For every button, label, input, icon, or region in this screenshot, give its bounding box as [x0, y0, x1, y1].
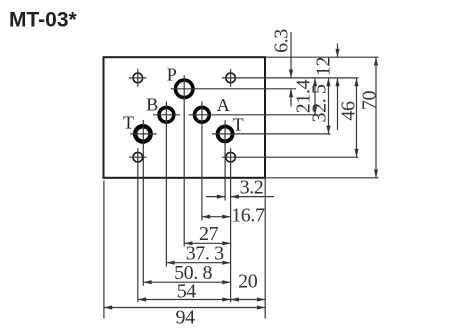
svg-text:12: 12	[313, 57, 335, 76]
wire: bottom-right bolt crosshair horizontal, continues right as bolt-row extension	[222, 156, 359, 158]
wire: top-right bolt crosshair horizontal, continues right as bolt-row extension	[222, 77, 359, 79]
wire: A crosshair horizontal, continues right as A/B-row extension	[189, 114, 319, 116]
svg-text:MT-03*: MT-03*	[9, 9, 78, 32]
svg-text:3.2: 3.2	[240, 177, 264, 199]
wire: plate left edge extension line (down)	[103, 181, 105, 319]
wire: T-left crosshair vertical, continues down to 50.8-dimension	[142, 120, 144, 286]
wire: top-right bolt crosshair vertical	[230, 69, 232, 87]
dimension 3.2 (T-right col to bolt col)	[206, 196, 225, 198]
dimension 21.4 (bolt row to A/B row)	[314, 78, 316, 115]
svg-text:16.7: 16.7	[231, 205, 265, 227]
wire: bottom-left bolt crosshair vertical, continues down to 54-dimension	[137, 148, 139, 302]
dimension 20 (bolt col to plate right edge)	[231, 299, 266, 301]
port T left hole	[135, 126, 150, 141]
svg-text:B: B	[146, 95, 158, 115]
dimension 27 (P col to bolt col)	[184, 242, 230, 244]
port P hole	[175, 80, 193, 98]
dimension 12 (plate top to bolt row)	[337, 44, 339, 58]
port A hole	[195, 107, 210, 122]
wire: top-left bolt crosshair	[129, 77, 147, 79]
wire: A crosshair vertical, continues down to 16.7-dimension	[201, 101, 203, 220]
dimension 94 (plate width)	[104, 307, 265, 309]
dimension 50.8 (T-left col to bolt col)	[143, 281, 230, 283]
wire: T-right crosshair vertical, continues down to 3.2-dimension	[224, 120, 226, 200]
dimension 70 (plate height)	[375, 57, 377, 178]
wire: B crosshair vertical, continues down to 37.3-dimension	[165, 101, 167, 266]
dimension 16.7 (A col to bolt col)	[202, 216, 231, 218]
bolt hole top-right	[226, 73, 236, 83]
svg-text:54: 54	[177, 281, 197, 303]
dimension 32.5 (bolt row to T row)	[328, 78, 330, 134]
wire: bottom-right bolt crosshair vertical, continues down to 54/20-dimension	[230, 148, 232, 302]
wire: plate right edge extension line (down)	[264, 178, 266, 319]
wire: plate bottom edge extension line (right)	[265, 177, 379, 179]
wire: P crosshair horizontal, continues right as P-row extension	[171, 88, 296, 90]
svg-text:A: A	[217, 95, 230, 115]
dimension 37.3 (B col to bolt col)	[166, 262, 230, 264]
svg-text:6.3: 6.3	[271, 29, 293, 53]
plate outline	[104, 57, 266, 178]
svg-text:T: T	[123, 113, 134, 133]
dimension 46 (bolt row to bolt row)	[356, 78, 358, 157]
svg-text:T: T	[233, 114, 244, 134]
bolt hole top-left	[133, 73, 143, 83]
wire: plate top edge extension line (right)	[265, 56, 379, 58]
dimension 6.3 (bolt row to P row)	[290, 32, 292, 78]
wire: T-left crosshair horizontal	[130, 133, 156, 135]
svg-text:P: P	[167, 64, 177, 84]
port T right hole	[218, 126, 233, 141]
bolt hole bottom-right	[226, 152, 236, 162]
svg-text:70: 70	[359, 91, 381, 111]
svg-text:94: 94	[175, 307, 195, 329]
port B hole	[159, 107, 174, 122]
bolt hole bottom-left	[133, 152, 143, 162]
svg-text:46: 46	[338, 101, 360, 121]
dimension 54 (bolt col to bolt col)	[138, 299, 231, 301]
wire: B crosshair horizontal	[153, 114, 180, 116]
svg-text:32. 5: 32. 5	[309, 84, 331, 122]
wire: T-right crosshair horizontal, continues right as T-row extension	[212, 133, 331, 135]
wire: P crosshair vertical, continues down to 27-dimension	[183, 75, 185, 246]
wire: bottom-left bolt crosshair horizontal	[129, 156, 147, 158]
svg-text:20: 20	[238, 271, 258, 293]
